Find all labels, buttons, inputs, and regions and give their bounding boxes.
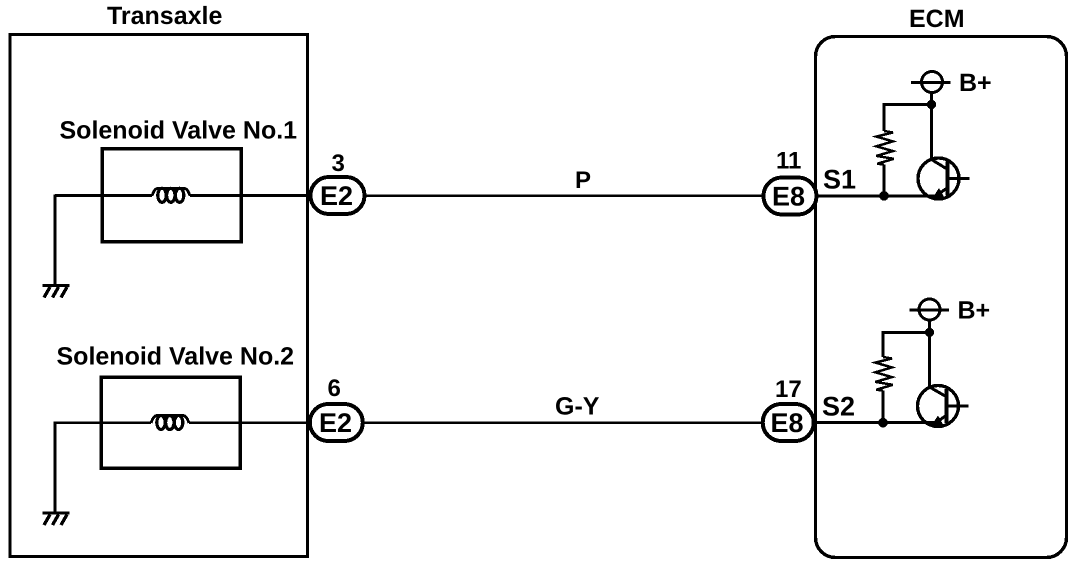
svg-text:P: P — [575, 167, 591, 194]
junction dot (B+ node, channel 1) — [927, 100, 936, 109]
svg-text:E8: E8 — [772, 182, 805, 212]
wire: E8 pin 11 into ECM to transistor Q1 — [812, 195, 941, 198]
svg-text:ECM: ECM — [909, 5, 965, 33]
wire: inductor L2 to E2 pin 6 — [189, 421, 310, 424]
ground G2 — [43, 513, 70, 525]
resistor R1 — [876, 131, 893, 165]
wire: inductor L1 to E2 pin 3 — [190, 194, 311, 197]
svg-text:E2: E2 — [320, 181, 353, 211]
Transaxle enclosure box — [10, 35, 308, 557]
wire: E8 pin 17 into ECM to transistor Q2 — [811, 421, 940, 424]
svg-text:E8: E8 — [771, 408, 804, 438]
connector E8 pin 11 — [764, 178, 817, 215]
B+ terminal (channel 2) — [910, 299, 950, 320]
wire: B+ down to transistor Q1 collector — [930, 93, 933, 162]
wire P: E2 pin 3 to E8 pin 11 — [360, 195, 766, 197]
B+ terminal (channel 1) — [911, 72, 951, 93]
svg-text:E2: E2 — [319, 408, 352, 438]
solenoid valve No.2 box — [101, 377, 240, 468]
connector E8 pin 17 — [763, 404, 814, 441]
transistor Q1 — [918, 158, 970, 199]
junction dot (S1 node) — [879, 191, 889, 201]
svg-text:Solenoid Valve No.2: Solenoid Valve No.2 — [57, 343, 295, 371]
solenoid valve No.1 box — [102, 149, 241, 242]
wire: B+ down to transistor Q2 collector — [928, 320, 931, 389]
junction dot (B+ node, channel 2) — [925, 328, 934, 337]
svg-text:11: 11 — [776, 148, 801, 175]
junction dot (S2 node) — [878, 418, 888, 428]
wire: B+ node to resistor R2 — [883, 332, 930, 357]
svg-text:Transaxle: Transaxle — [107, 2, 222, 30]
svg-text:6: 6 — [328, 375, 341, 402]
inductor L2 — [151, 416, 189, 430]
wire: solenoid 1 to inductor L1 — [55, 194, 152, 197]
inductor L1 — [152, 188, 190, 202]
wire: resistor R2 to S2 node — [882, 391, 885, 423]
wire: solenoid 2 down to ground — [54, 422, 57, 513]
svg-text:3: 3 — [332, 150, 345, 177]
svg-text:S1: S1 — [823, 165, 856, 195]
svg-text:17: 17 — [775, 376, 802, 403]
svg-text:S2: S2 — [822, 392, 855, 422]
ECM enclosure box — [816, 37, 1067, 558]
transistor Q2 — [918, 386, 969, 427]
connector E2 pin 6 — [310, 404, 363, 441]
connector E2 pin 3 — [311, 177, 365, 214]
wire: solenoid 1 down to ground — [54, 195, 57, 286]
wire G-Y: E2 pin 6 to E8 pin 17 — [359, 422, 765, 424]
wire: resistor R1 to S1 node — [883, 165, 886, 196]
svg-text:B+: B+ — [958, 297, 991, 325]
wire: B+ node to resistor R1 — [884, 105, 932, 132]
ground G1 — [43, 286, 70, 298]
wire: solenoid 2 to inductor L2 — [55, 421, 151, 424]
svg-text:B+: B+ — [959, 69, 992, 97]
svg-text:Solenoid Valve No.1: Solenoid Valve No.1 — [60, 117, 298, 145]
resistor R2 — [875, 357, 892, 391]
svg-text:G-Y: G-Y — [555, 393, 600, 421]
